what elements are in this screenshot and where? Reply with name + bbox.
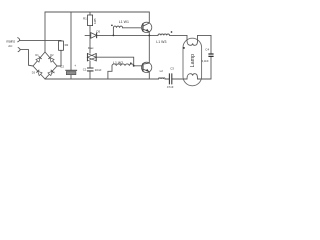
svg-text:+: + [74, 64, 76, 68]
svg-text:L1 W3: L1 W3 [156, 40, 166, 44]
svg-text:C4: C4 [205, 47, 209, 51]
svg-text:10nF: 10nF [95, 68, 102, 72]
svg-text:mains: mains [6, 39, 15, 43]
svg-text:L1 W1: L1 W1 [119, 20, 129, 24]
svg-text:R1: R1 [83, 17, 87, 21]
svg-text:C3: C3 [170, 67, 174, 71]
svg-text:C1: C1 [83, 68, 87, 72]
svg-text:R2: R2 [65, 43, 69, 47]
svg-text:C2: C2 [60, 65, 64, 69]
svg-text:L2: L2 [160, 69, 164, 73]
svg-text:D5: D5 [96, 30, 100, 34]
svg-text:Lamp: Lamp [190, 54, 196, 68]
svg-text:L1 W2: L1 W2 [113, 61, 123, 65]
svg-text:Dac: Dac [88, 46, 94, 50]
svg-text:1M5: 1M5 [93, 18, 97, 24]
svg-text:3,3nF: 3,3nF [202, 59, 209, 63]
svg-text:47nF: 47nF [167, 85, 174, 89]
